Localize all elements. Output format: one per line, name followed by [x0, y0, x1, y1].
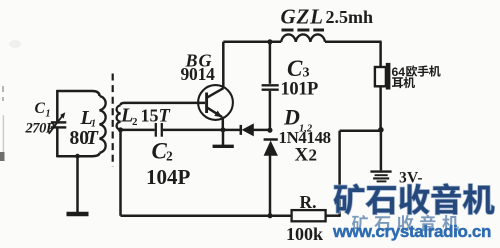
- svg-text:T: T: [159, 106, 171, 126]
- svg-text:C: C: [35, 100, 46, 117]
- svg-text:T: T: [86, 128, 99, 149]
- svg-text:9014: 9014: [181, 64, 216, 84]
- svg-text:2: 2: [166, 149, 173, 164]
- svg-text:64: 64: [392, 65, 406, 79]
- svg-text:2: 2: [309, 145, 318, 164]
- svg-text:X: X: [295, 144, 309, 165]
- svg-text:R.: R.: [300, 192, 317, 212]
- svg-text:104P: 104P: [146, 165, 191, 189]
- svg-text:www.crystalradio.cn: www.crystalradio.cn: [332, 222, 491, 241]
- svg-text:D: D: [283, 105, 300, 130]
- svg-text:101P: 101P: [281, 80, 319, 100]
- svg-text:C: C: [287, 56, 303, 81]
- svg-text:15: 15: [141, 105, 159, 125]
- svg-text:GZL: GZL: [281, 4, 324, 28]
- svg-text:1: 1: [46, 108, 51, 119]
- svg-text:2.5mh: 2.5mh: [326, 7, 374, 27]
- svg-text:2: 2: [132, 116, 138, 128]
- svg-text:100k: 100k: [286, 224, 323, 243]
- svg-text:3: 3: [303, 66, 310, 81]
- svg-text:270P: 270P: [25, 120, 55, 136]
